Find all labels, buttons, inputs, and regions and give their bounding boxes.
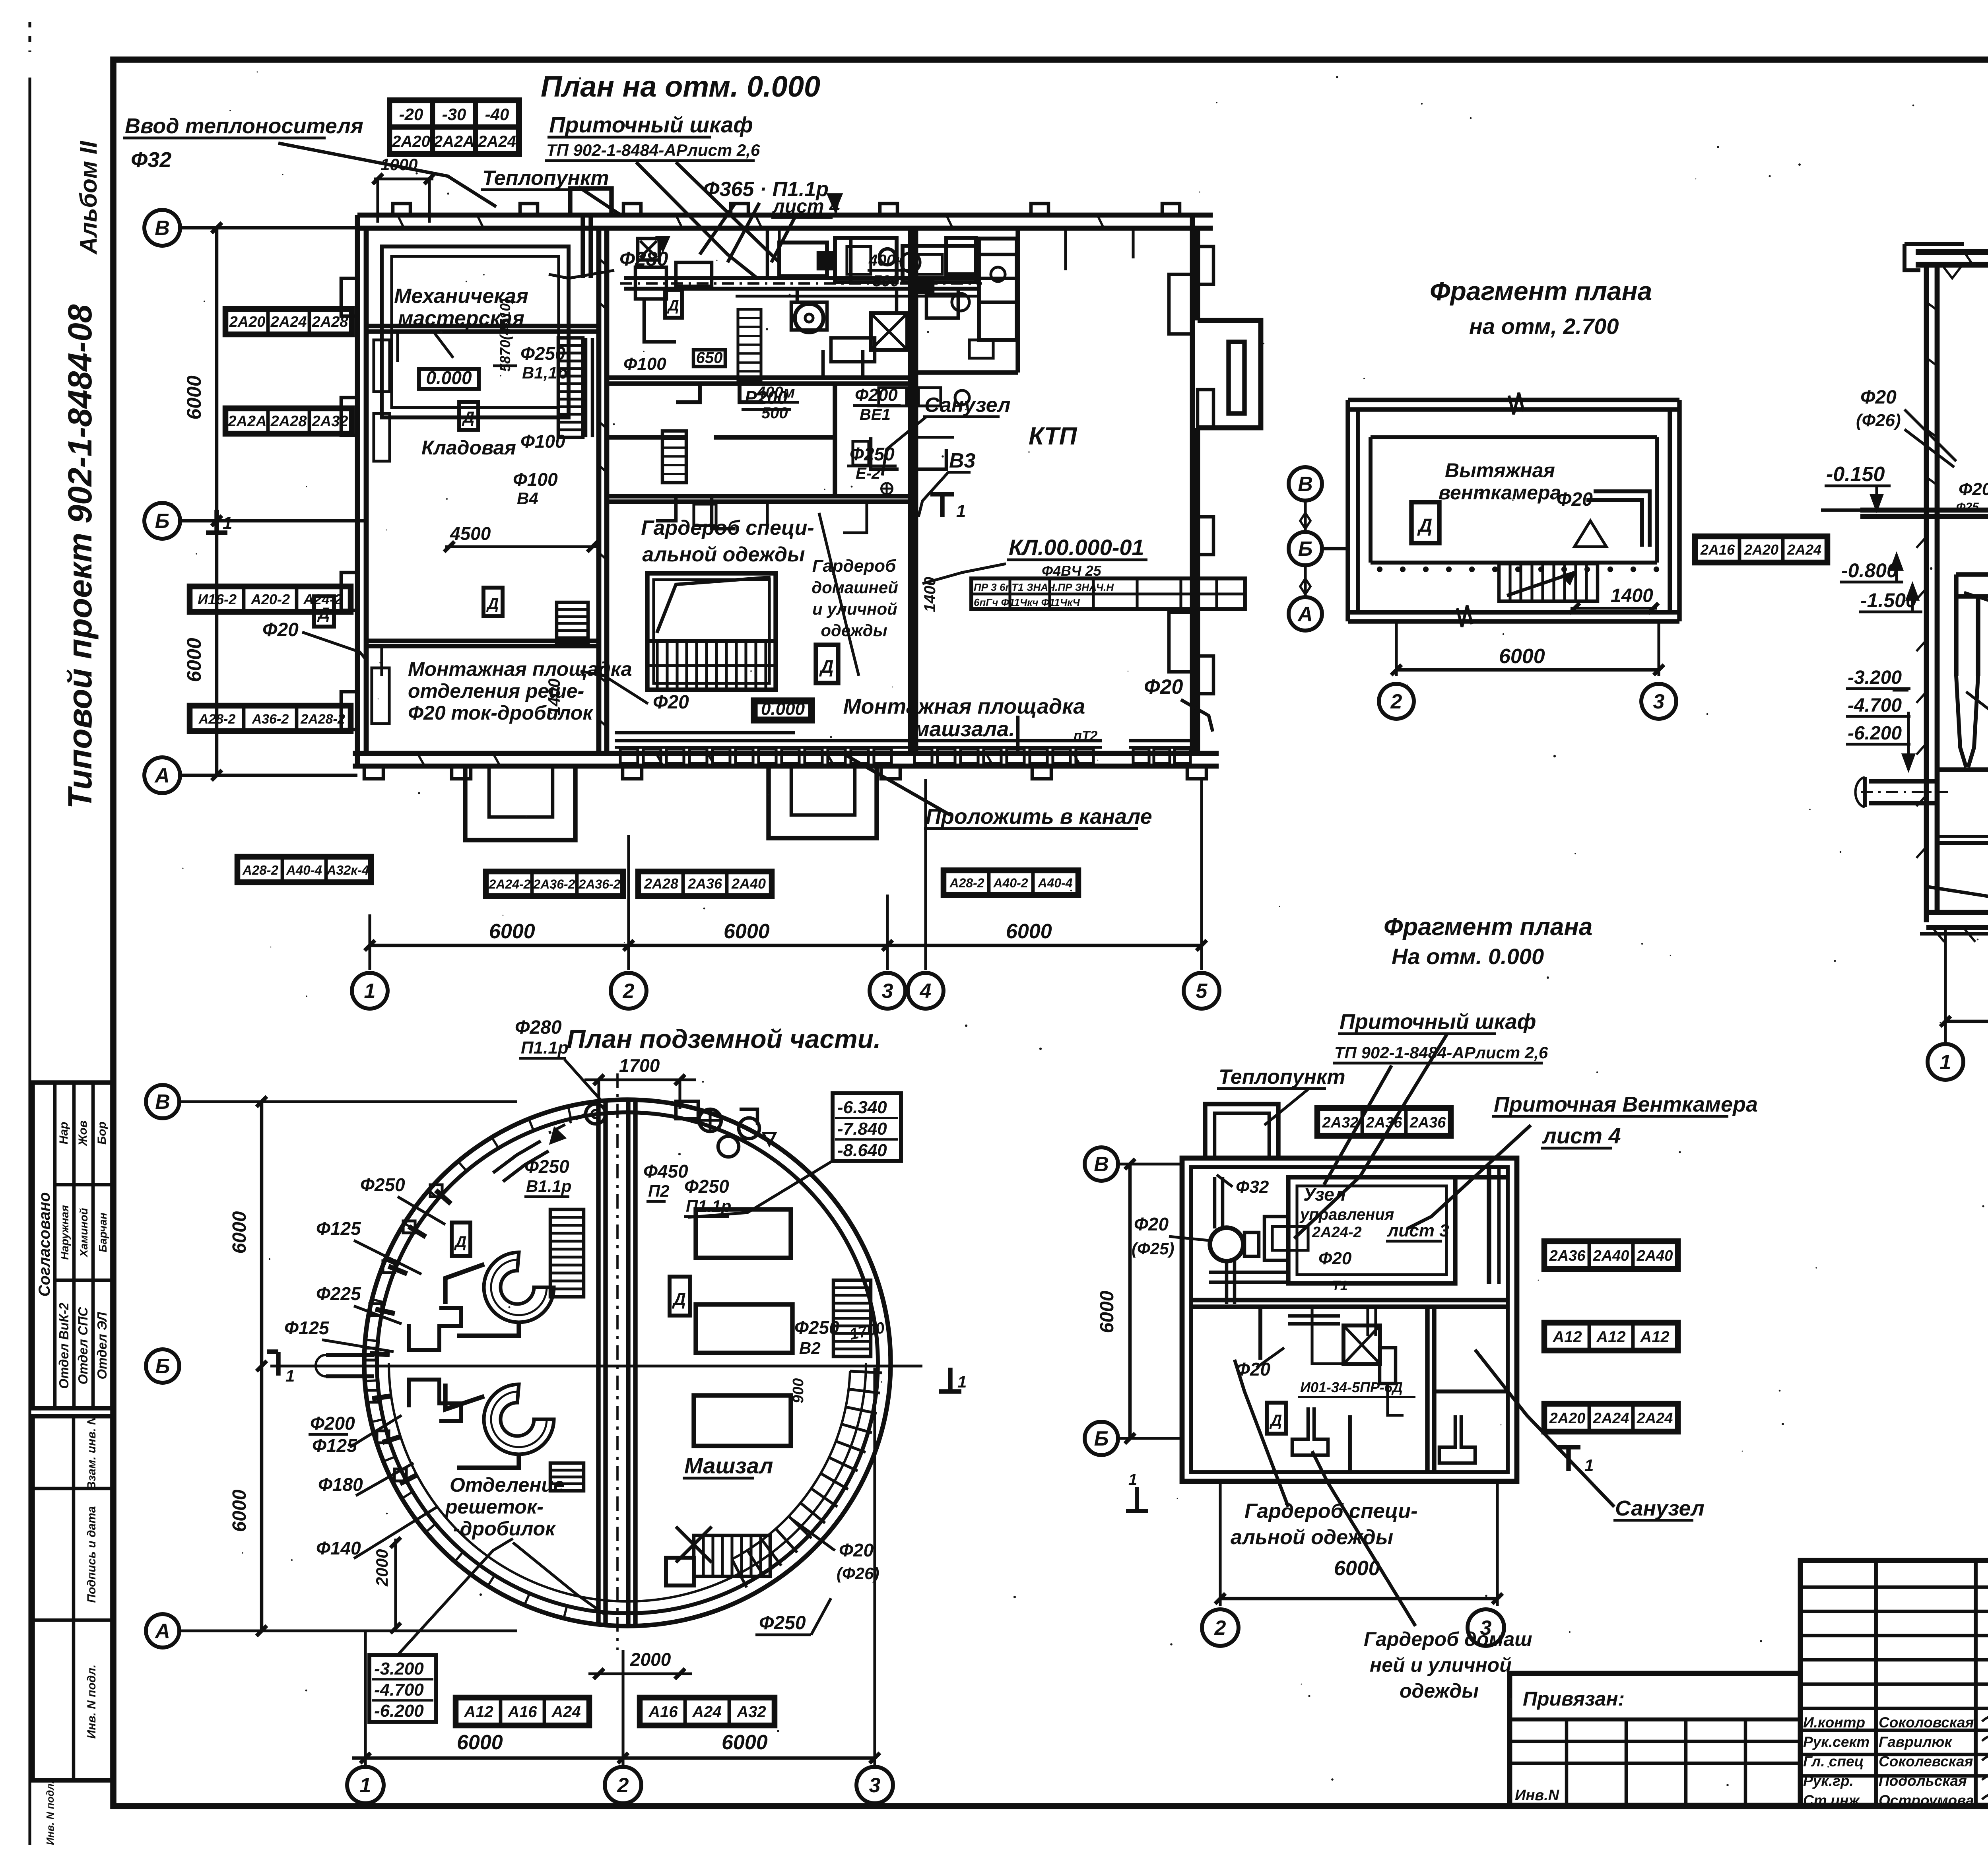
svg-text:А40-4: А40-4 [286, 863, 322, 877]
svg-text:-40: -40 [485, 105, 509, 124]
svg-text:В3: В3 [949, 449, 976, 472]
svg-text:Д: Д [454, 1233, 467, 1251]
svg-text:6000: 6000 [457, 1731, 503, 1754]
svg-text:Отдел ВиК-2: Отдел ВиК-2 [56, 1302, 71, 1389]
svg-text:Ф250: Ф250 [794, 1317, 839, 1338]
svg-text:1700: 1700 [619, 1055, 660, 1076]
svg-text:Наружная: Наружная [58, 1205, 71, 1260]
tables A12 A16 A24 [454, 1696, 590, 1727]
fragment axes circles [1289, 467, 1322, 501]
piping cluster fragment [1209, 1177, 1344, 1364]
plan bottom axis circles [352, 973, 388, 1009]
svg-text:2А24-2: 2А24-2 [1312, 1224, 1362, 1241]
svg-text:Рук.гр.: Рук.гр. [1803, 1773, 1854, 1789]
svg-text:Фрагмент плана: Фрагмент плана [1384, 913, 1592, 941]
svg-text:Гардероб специ-: Гардероб специ- [1244, 1500, 1417, 1523]
svg-text:Ф20: Ф20 [839, 1540, 874, 1560]
svg-text:2А40: 2А40 [731, 875, 766, 892]
svg-text:Ф140: Ф140 [316, 1538, 361, 1558]
svg-text:6000: 6000 [1334, 1557, 1380, 1580]
section mark bottom left fragment [1135, 1487, 1139, 1511]
section floors [1860, 386, 1988, 582]
svg-text:-6.340: -6.340 [837, 1098, 887, 1117]
svg-text:Ф100: Ф100 [520, 431, 565, 452]
left chamber stepped wall [409, 1308, 461, 1350]
svg-text:Вытяжная: Вытяжная [1445, 459, 1555, 481]
sidebar lower stamp table [33, 1416, 113, 1845]
svg-text:Ф100: Ф100 [513, 469, 558, 490]
svg-text:2А24: 2А24 [1637, 1410, 1673, 1427]
svg-text:650: 650 [696, 349, 723, 367]
svg-text:1400: 1400 [545, 679, 563, 716]
bottom wall foundation pits [465, 766, 575, 840]
svg-text:Приточная Венткамера: Приточная Венткамера [1494, 1093, 1758, 1116]
svg-text:и уличной: и уличной [812, 600, 897, 618]
svg-text:А24-2: А24-2 [303, 591, 342, 607]
duct left basement [1956, 574, 1988, 767]
svg-text:ней и уличной: ней и уличной [1370, 1654, 1512, 1676]
D box round right [670, 1277, 690, 1316]
svg-text:2: 2 [1390, 690, 1402, 713]
middle room piping near wardrobe [656, 431, 867, 533]
vent chamber extra piping [736, 228, 1018, 378]
svg-text:В1,1р: В1,1р [522, 363, 567, 382]
svg-text:4: 4 [920, 980, 932, 1003]
volute pump upper [445, 1252, 554, 1336]
svg-text:2А36-2: 2А36-2 [579, 877, 621, 891]
svg-text:6000: 6000 [183, 638, 205, 682]
section cut mark 1 left [214, 510, 219, 533]
svg-text:Е-2: Е-2 [856, 465, 880, 482]
svg-text:-0.800: -0.800 [1841, 559, 1898, 582]
svg-text:5870(4510): 5870(4510) [497, 299, 513, 372]
svg-text:А16: А16 [648, 1703, 678, 1721]
svg-text:2А36: 2А36 [687, 875, 722, 892]
left sheet edge line [28, 78, 31, 1845]
elevation box -6.340 -7.840 -8.640 round [688, 1093, 901, 1217]
svg-text:2А2А: 2А2А [227, 413, 266, 430]
svg-text:В1.1р: В1.1р [526, 1177, 571, 1195]
svg-text:Инв. N подл.: Инв. N подл. [44, 1781, 56, 1845]
svg-text:6пГч Ф11Чкч Ф11ЧкЧ: 6пГч Ф11Чкч Ф11ЧкЧ [974, 596, 1080, 608]
svg-text:1: 1 [364, 980, 376, 1003]
svg-text:2А16: 2А16 [1700, 541, 1735, 558]
wardrobe stair block [647, 573, 776, 690]
svg-text:П1.1р: П1.1р [686, 1197, 731, 1215]
svg-text:1: 1 [285, 1366, 295, 1385]
svg-text:А20-2: А20-2 [250, 591, 290, 607]
svg-text:Т1: Т1 [1332, 1278, 1348, 1293]
svg-text:В: В [1298, 473, 1313, 496]
svg-text:Д: Д [819, 656, 833, 677]
round plan left axis circles [146, 1085, 179, 1118]
svg-text:1: 1 [957, 1372, 967, 1391]
svg-text:Ф20: Ф20 [1134, 1214, 1169, 1234]
elevation box -3.200 -4.700 -6.200 round [369, 1539, 513, 1722]
small equipment sanuzel [853, 437, 946, 469]
svg-text:Инв.N: Инв.N [1515, 1787, 1560, 1804]
svg-text:6000: 6000 [489, 920, 535, 943]
svg-text:2А28: 2А28 [644, 875, 678, 892]
vestibule bump top [570, 188, 612, 215]
fragment 0.000 walls [1182, 1104, 1517, 1481]
plan left axis lines [180, 226, 357, 230]
small pipes lower middle fragment [1368, 1307, 1404, 1415]
svg-text:И16-2: И16-2 [198, 591, 237, 607]
svg-text:А: А [154, 764, 170, 787]
rim hatch stubs left [364, 1185, 451, 1484]
svg-text:одежды: одежды [821, 621, 887, 640]
fragment 0.000 axis circles [1085, 1147, 1118, 1181]
svg-text:А32: А32 [736, 1703, 766, 1721]
fragment mid horizontal wall [1191, 1298, 1507, 1302]
svg-text:Ф25: Ф25 [1956, 501, 1979, 514]
svg-text:1: 1 [360, 1774, 371, 1797]
svg-text:2А40: 2А40 [1593, 1248, 1629, 1264]
svg-text:Ф32: Ф32 [131, 148, 171, 172]
svg-text:Остроумова: Остроумова [1879, 1792, 1974, 1809]
svg-text:-3.200: -3.200 [374, 1659, 424, 1679]
svg-text:А24: А24 [692, 1703, 721, 1721]
section walls [1926, 265, 1988, 922]
inlet pipe left [1856, 777, 1948, 807]
pump circle fragment [1210, 1228, 1243, 1261]
right rim curved stair [732, 1371, 882, 1587]
svg-text:1: 1 [1940, 1051, 1951, 1074]
svg-text:6000: 6000 [1097, 1290, 1118, 1333]
kladovaya door and fixtures [372, 332, 453, 724]
bottom stair round [676, 1527, 770, 1576]
machine rectangles right [696, 1209, 791, 1258]
svg-text:А32к-4: А32к-4 [326, 863, 369, 877]
svg-text:2А24: 2А24 [478, 133, 516, 150]
bottom label tables [485, 870, 624, 897]
plan left dim chain [215, 228, 219, 775]
T1 mark fragment [1566, 1447, 1571, 1471]
svg-text:В: В [155, 1091, 170, 1114]
round plan axis lines [270, 1364, 922, 1367]
svg-text:В2: В2 [799, 1339, 821, 1357]
svg-text:Кладовая: Кладовая [421, 437, 516, 459]
D box radiator left outside [314, 596, 334, 627]
svg-text:Ф20: Ф20 [1318, 1249, 1352, 1268]
lower small ladder round plan [550, 1463, 584, 1491]
fragment 2.700 inner room [1371, 437, 1658, 571]
svg-text:6000: 6000 [1006, 920, 1052, 943]
svg-text:-7.840: -7.840 [837, 1119, 887, 1139]
svg-text:2А24: 2А24 [1593, 1410, 1629, 1427]
svg-text:А24: А24 [551, 1703, 580, 1721]
svg-text:2: 2 [1214, 1616, 1226, 1640]
svg-text:-6.200: -6.200 [1848, 723, 1902, 744]
title block upper grid [1800, 1560, 1988, 1805]
round plan rim inner ring hatch [365, 1106, 606, 1625]
svg-text:Инв. N подл.: Инв. N подл. [85, 1665, 98, 1739]
svg-text:КТП: КТП [1029, 423, 1077, 450]
svg-text:-4.700: -4.700 [1848, 695, 1902, 716]
svg-text:Хаминой: Хаминой [78, 1208, 90, 1257]
svg-text:Д: Д [1417, 515, 1433, 536]
svg-text:Отдел СПС: Отдел СПС [76, 1306, 90, 1384]
svg-text:ТП 902-1-8484-АРлист 2,6: ТП 902-1-8484-АРлист 2,6 [546, 141, 760, 159]
leader pritochny to plan [1294, 1034, 1447, 1238]
svg-text:Ф125: Ф125 [284, 1318, 330, 1338]
fragment 0.000 left dim [1128, 1164, 1132, 1438]
round plan outer circles [364, 1100, 891, 1626]
svg-text:(Ф26): (Ф26) [1856, 411, 1901, 430]
leader wardrobe [819, 513, 859, 676]
svg-text:Ф32: Ф32 [1236, 1177, 1269, 1197]
T-shapes fragment [1292, 1407, 1475, 1463]
svg-text:Гл. спец: Гл. спец [1803, 1753, 1864, 1770]
D box 3 [483, 588, 503, 616]
svg-text:Р200: Р200 [745, 387, 788, 408]
svg-text:венткамера: венткамера [1439, 481, 1561, 504]
svg-text:А40-4: А40-4 [1037, 876, 1072, 890]
svg-text:Монтажная площадка: Монтажная площадка [843, 695, 1085, 718]
svg-text:Д: Д [486, 595, 499, 613]
svg-text:Б: Б [1094, 1427, 1109, 1450]
right entrance portal [1198, 320, 1261, 428]
svg-text:лист 3: лист 3 [1387, 1221, 1449, 1240]
svg-text:500: 500 [873, 272, 899, 290]
svg-text:Подпись и дата: Подпись и дата [85, 1506, 98, 1603]
svg-text:2А20: 2А20 [392, 133, 430, 150]
svg-text:6000: 6000 [183, 375, 205, 419]
main interior walls [366, 228, 1018, 753]
svg-text:лист 4: лист 4 [1541, 1123, 1621, 1148]
svg-text:2А20: 2А20 [1744, 541, 1778, 558]
svg-text:Ф250: Ф250 [759, 1613, 806, 1634]
section bottom slab [1920, 887, 1988, 934]
machine hall floor grilles [615, 733, 1193, 763]
svg-text:-дробилок: -дробилок [453, 1518, 556, 1540]
svg-text:Ф20: Ф20 [262, 619, 299, 640]
svg-text:Альбом II: Альбом II [75, 140, 102, 255]
svg-text:2А40: 2А40 [1637, 1248, 1673, 1264]
leader to pritochny shkaf [636, 162, 757, 278]
svg-text:6000: 6000 [229, 1489, 250, 1532]
D box 1 [459, 402, 478, 430]
svg-text:2А36: 2А36 [1549, 1248, 1586, 1264]
svg-text:2А24: 2А24 [270, 314, 307, 330]
svg-text:машзала.: машзала. [914, 717, 1015, 741]
svg-text:2А32: 2А32 [312, 413, 348, 430]
svg-text:Ф250: Ф250 [520, 343, 565, 364]
svg-text:Ф20 ток-дробилок: Ф20 ток-дробилок [408, 702, 594, 724]
svg-text:на отм, 2.700: на отм, 2.700 [1469, 314, 1619, 339]
svg-text:одежды: одежды [1400, 1680, 1479, 1702]
vent chamber heavy equipment pass3 [583, 215, 1018, 437]
stairwell tall ladder [558, 338, 583, 437]
round plan bottom axis circles [347, 1767, 384, 1803]
svg-text:Соколевская: Соколевская [1879, 1753, 1973, 1770]
top fittings round plan [676, 1101, 775, 1157]
label 0.000 box mid [753, 700, 813, 721]
svg-text:1: 1 [1128, 1471, 1137, 1488]
section bottom dim [1944, 928, 1947, 1046]
X-box fragment [1343, 1325, 1380, 1364]
small rect bottom [666, 1558, 694, 1585]
svg-text:Теплопункт: Теплопункт [482, 167, 609, 190]
svg-text:Ф20: Ф20 [1959, 479, 1988, 499]
svg-text:Приточный шкаф: Приточный шкаф [549, 112, 753, 137]
section axis circles [1928, 1044, 1963, 1080]
svg-text:Д: Д [667, 297, 679, 314]
svg-text:Гаврилюк: Гаврилюк [1879, 1734, 1953, 1750]
svg-text:Типовой проект 902-1-8484-08: Типовой проект 902-1-8484-08 [61, 304, 99, 809]
fragment 2.700 walls [1348, 393, 1679, 627]
svg-text:900: 900 [790, 1378, 807, 1403]
svg-text:Ф180: Ф180 [318, 1474, 363, 1495]
svg-text:Подольская: Подольская [1879, 1773, 1967, 1789]
svg-text:2А28: 2А28 [312, 314, 349, 330]
svg-text:В4: В4 [517, 489, 538, 508]
svg-text:6000: 6000 [229, 1211, 250, 1254]
svg-text:Б: Б [155, 510, 170, 533]
svg-text:А28-2: А28-2 [949, 876, 984, 890]
svg-text:(Ф26): (Ф26) [837, 1564, 879, 1583]
svg-text:Гардероб домаш: Гардероб домаш [1364, 1628, 1532, 1650]
title block privyazan box [1510, 1673, 1800, 1805]
svg-text:2А28: 2А28 [270, 413, 307, 430]
svg-text:-20: -20 [399, 105, 423, 124]
svg-text:2А24-2: 2А24-2 [489, 877, 531, 891]
basement pit [1937, 770, 1988, 887]
svg-text:ПР 3 6пТ1 ЗНАЧ.ПР ЗНАЧ.Н: ПР 3 6пТ1 ЗНАЧ.ПР ЗНАЧ.Н [974, 581, 1114, 593]
svg-text:План подземной части.: План подземной части. [567, 1024, 881, 1054]
left label tables [224, 308, 353, 336]
svg-text:Отдел ЭЛ: Отдел ЭЛ [95, 1312, 109, 1379]
svg-text:Ф125: Ф125 [316, 1218, 361, 1239]
svg-text:2000: 2000 [630, 1649, 671, 1670]
svg-text:А: А [1297, 603, 1313, 626]
svg-text:Ф20: Ф20 [1144, 675, 1183, 699]
svg-text:-3.200: -3.200 [1848, 667, 1902, 688]
section cut mark T1 plan [940, 494, 944, 517]
svg-text:-4.700: -4.700 [374, 1680, 424, 1700]
svg-text:6000: 6000 [722, 1731, 768, 1754]
svg-text:2А2А: 2А2А [433, 133, 474, 150]
svg-text:(Ф25): (Ф25) [1132, 1239, 1174, 1258]
round plan bottom dims [364, 1631, 367, 1765]
title block staff names [1803, 1714, 1988, 1818]
svg-text:А28-2: А28-2 [242, 863, 279, 877]
svg-text:Теплопункт: Теплопункт [1219, 1065, 1345, 1089]
svg-text:альной одежды: альной одежды [1231, 1526, 1393, 1549]
svg-text:альной одежды: альной одежды [642, 543, 805, 566]
D box fragment [1411, 502, 1439, 543]
svg-text:-8.640: -8.640 [837, 1141, 887, 1160]
tables right fragment [1543, 1240, 1679, 1270]
small ladder left [557, 602, 588, 645]
svg-text:Соколовская: Соколовская [1879, 1714, 1974, 1731]
svg-text:Привязан:: Привязан: [1523, 1688, 1625, 1710]
svg-text:Ф250: Ф250 [524, 1156, 569, 1177]
svg-text:400н: 400н [868, 252, 905, 269]
svg-text:2А28-2: 2А28-2 [300, 712, 345, 727]
svg-text:В: В [155, 217, 170, 240]
svg-text:Ф280: Ф280 [515, 1017, 562, 1038]
svg-text:Узел: Узел [1303, 1184, 1346, 1205]
svg-text:2А20: 2А20 [1549, 1410, 1586, 1427]
volute pump lower [445, 1384, 554, 1468]
svg-text:Ф4ВЧ 25: Ф4ВЧ 25 [1042, 563, 1102, 579]
svg-text:А36-2: А36-2 [252, 712, 289, 727]
vent chamber equipment cluster [620, 194, 1017, 380]
svg-text:А28-2: А28-2 [198, 712, 236, 727]
svg-text:Нар: Нар [57, 1122, 70, 1145]
svg-text:Машзал: Машзал [684, 1453, 773, 1478]
svg-text:А40-2: А40-2 [993, 876, 1028, 890]
round plan center band walls [598, 1073, 635, 1650]
svg-text:Гардероб: Гардероб [812, 556, 897, 576]
section extra details [1926, 252, 1988, 510]
bottom wall pilasters [364, 766, 383, 779]
svg-text:1000: 1000 [381, 155, 417, 174]
fragment stair [1499, 564, 1598, 601]
svg-text:Ф20: Ф20 [1860, 387, 1897, 408]
fragment inner ventkamera room [1288, 1167, 1507, 1284]
mech workshop inner room [382, 246, 569, 417]
svg-text:Ф250: Ф250 [684, 1176, 729, 1197]
svg-text:Д: Д [672, 1290, 686, 1309]
svg-text:6000: 6000 [1499, 645, 1545, 668]
svg-text:2А36: 2А36 [1366, 1114, 1403, 1131]
svg-text:Жов: Жов [76, 1120, 89, 1147]
svg-text:А12: А12 [1640, 1328, 1669, 1346]
svg-text:Д: Д [462, 409, 475, 426]
parts strip table [971, 578, 1245, 609]
section cut symbol left round [276, 1352, 280, 1376]
svg-text:0.000: 0.000 [426, 367, 472, 388]
svg-text:КЛ.00.000-01: КЛ.00.000-01 [1009, 535, 1144, 560]
svg-text:3: 3 [1653, 690, 1665, 713]
svg-text:Ф100: Ф100 [623, 354, 666, 374]
svg-text:2000: 2000 [373, 1549, 391, 1587]
svg-text:1400: 1400 [921, 577, 939, 612]
svg-text:4500: 4500 [450, 523, 491, 544]
svg-text:П1.1р: П1.1р [521, 1038, 569, 1058]
section wall hatching [1916, 537, 1988, 942]
svg-text:1: 1 [223, 513, 232, 533]
svg-text:Барчан: Барчан [97, 1213, 109, 1252]
left pipe stub [316, 1355, 374, 1376]
upper ladder round plan [550, 1209, 584, 1297]
svg-text:ВЕ1: ВЕ1 [860, 406, 891, 423]
svg-text:1400: 1400 [1611, 585, 1653, 606]
svg-text:0.000: 0.000 [761, 699, 805, 719]
svg-text:2: 2 [617, 1774, 629, 1797]
svg-text:А12: А12 [464, 1703, 493, 1721]
table 2A32 2A36 2A36 [1316, 1107, 1452, 1137]
svg-text:Ф20: Ф20 [653, 692, 689, 713]
fragment bottom dim [1395, 621, 1398, 676]
svg-text:-0.150: -0.150 [1826, 463, 1885, 486]
svg-text:управления: управления [1299, 1206, 1394, 1223]
plan right wall pilasters [1198, 246, 1213, 284]
svg-text:1: 1 [1584, 1456, 1594, 1475]
svg-text:Ф200: Ф200 [310, 1413, 355, 1434]
D box 2 [665, 290, 682, 318]
svg-text:Ф250: Ф250 [360, 1174, 405, 1195]
svg-text:3: 3 [882, 980, 893, 1003]
table -20 -30 -40 [389, 99, 520, 155]
label 0.000 box left [419, 369, 479, 389]
D box 4 [816, 645, 838, 683]
top left fitting with dashdot pipe [493, 1104, 606, 1182]
plan left axis circles [144, 210, 180, 246]
